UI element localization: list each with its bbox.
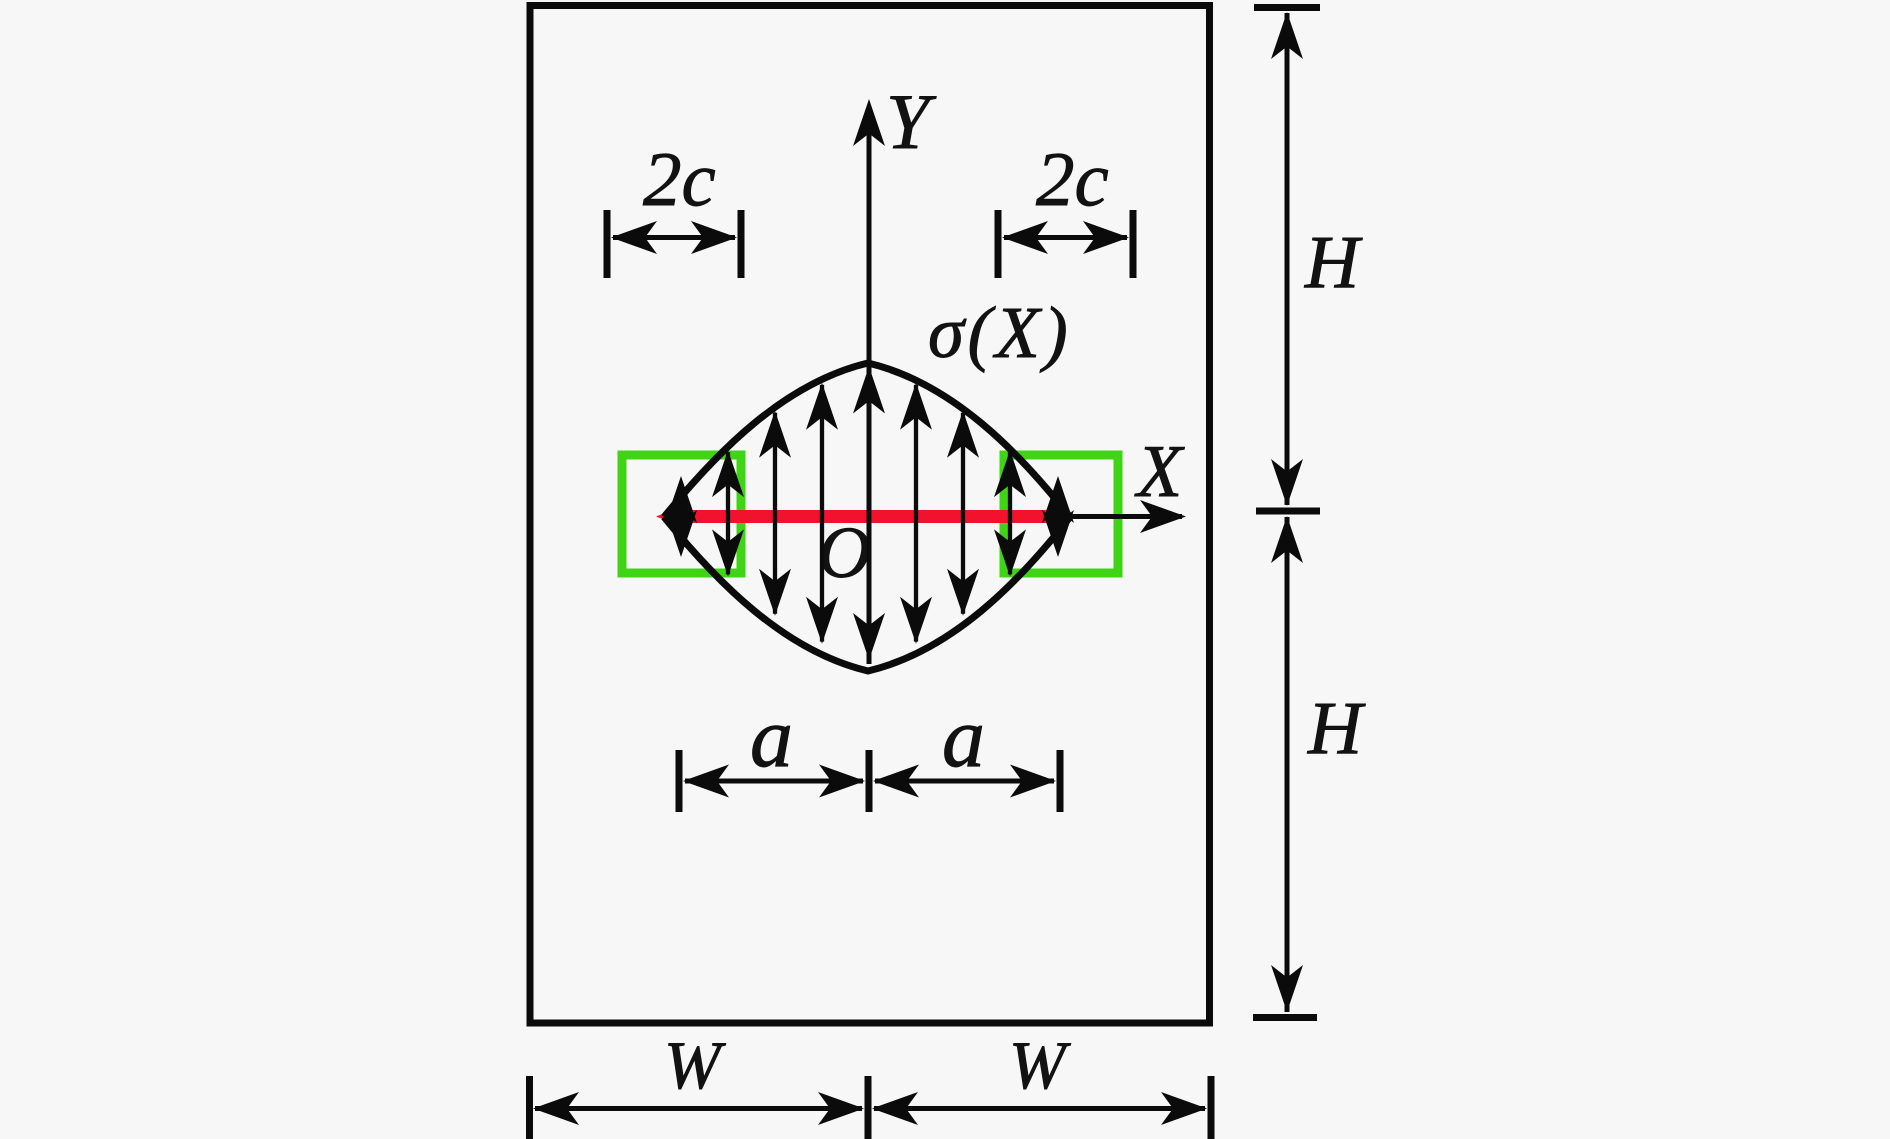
crack-tip stress double arrowhead at x=681 xyxy=(665,476,697,557)
svg-text:a: a xyxy=(750,689,793,785)
dimension H top xyxy=(1254,8,1320,507)
dimension H bottom xyxy=(1271,516,1303,1012)
dimension 2c left xyxy=(607,210,741,278)
svg-text:W: W xyxy=(1009,1027,1071,1103)
stress arrow pair at x=822 xyxy=(806,383,838,644)
X axis xyxy=(1062,500,1186,533)
crack-tip stress double arrowhead at x=1058 xyxy=(1042,476,1074,557)
svg-text:Y: Y xyxy=(886,78,937,165)
svg-text:X: X xyxy=(1134,431,1185,513)
svg-text:H: H xyxy=(1304,221,1363,304)
cohesive stress upper curve xyxy=(664,363,1070,517)
cohesive zone box left (green) xyxy=(622,455,741,573)
dimension 2c right xyxy=(998,210,1133,278)
svg-text:2c: 2c xyxy=(1036,136,1109,222)
svg-text:O: O xyxy=(818,512,871,593)
H dim middle tick xyxy=(1256,508,1320,515)
H dim bottom tick xyxy=(1253,1014,1317,1021)
plate outline xyxy=(530,6,1210,1024)
Y axis xyxy=(853,99,885,664)
stress arrow pair at x=775 xyxy=(759,411,791,616)
crack line (red) xyxy=(656,510,1074,523)
cohesive stress lower curve xyxy=(664,517,1070,671)
stress arrow pair at x=916 xyxy=(900,383,932,644)
stress arrow pair at x=963 xyxy=(947,411,979,616)
stress arrow pair at x=728 xyxy=(712,450,744,576)
dimension a right xyxy=(873,750,1060,812)
svg-text:W: W xyxy=(664,1027,726,1103)
svg-text:σ(X): σ(X) xyxy=(928,292,1071,373)
svg-text:H: H xyxy=(1307,687,1366,770)
svg-text:2c: 2c xyxy=(643,136,716,222)
svg-text:a: a xyxy=(942,689,985,785)
stress arrow pair at x=869 xyxy=(853,367,885,661)
dimension W right xyxy=(872,1076,1211,1139)
stress arrow pair at x=1010 xyxy=(994,450,1026,576)
dimension W left xyxy=(530,1076,869,1139)
dimension a left xyxy=(679,750,869,812)
cohesive zone box right (green) xyxy=(1004,455,1118,573)
